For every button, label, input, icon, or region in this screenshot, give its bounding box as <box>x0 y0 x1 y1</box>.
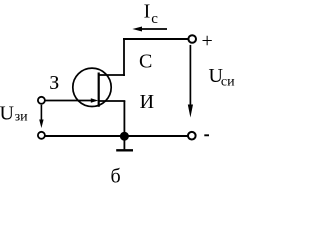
transistor VT1 (JFET) envelope circle <box>73 68 111 106</box>
svg-text:С: С <box>139 51 152 73</box>
terminal + (right top) <box>188 35 196 43</box>
svg-text:зи: зи <box>15 109 29 124</box>
svg-text:с: с <box>151 11 158 27</box>
svg-text:+: + <box>202 30 213 52</box>
Ic current arrow <box>138 28 167 30</box>
wire drain vertical <box>123 39 125 76</box>
wire bottom <box>45 135 187 137</box>
junction dot <box>120 132 129 141</box>
terminal - (right bottom) <box>188 132 196 140</box>
svg-text:I: I <box>144 1 151 23</box>
label minus <box>204 134 209 136</box>
wire top (drain to + terminal) <box>123 38 188 40</box>
terminal left bottom <box>38 132 45 139</box>
gate wire with arrow into channel <box>45 100 92 102</box>
svg-text:И: И <box>140 91 154 113</box>
wire drain horizontal <box>99 74 125 76</box>
terminal gate (left top) <box>38 97 45 104</box>
svg-text:б: б <box>111 166 121 188</box>
svg-text:U: U <box>0 103 15 125</box>
svg-text:З: З <box>49 72 59 94</box>
wire source horizontal <box>99 100 126 102</box>
gate arrowhead <box>91 98 98 103</box>
Usi arrow (drain-source voltage) <box>189 45 191 107</box>
svg-text:си: си <box>221 75 235 90</box>
Uzi arrow (gate-source voltage) <box>40 105 42 122</box>
wire source vertical <box>123 101 125 136</box>
ground bar <box>116 149 133 151</box>
transistor channel bar <box>98 73 100 107</box>
ground stub <box>123 136 125 149</box>
